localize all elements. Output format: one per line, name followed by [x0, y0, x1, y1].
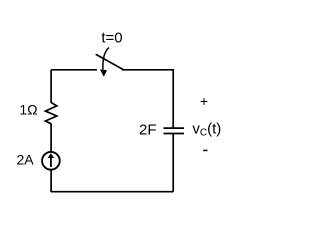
svg-text:1Ω: 1Ω [19, 102, 37, 118]
wire top-right segment [122, 69, 173, 71]
wire bottom [51, 191, 173, 193]
label - polarity [203, 150, 207, 152]
svg-text:2A: 2A [16, 152, 34, 168]
resistor R1 zigzag [45, 103, 56, 124]
svg-text:t=0: t=0 [101, 29, 122, 46]
current source arrowhead [48, 153, 55, 158]
switch closing arrow arc [103, 48, 109, 70]
wire left below current source [50, 170, 52, 192]
svg-text:+: + [200, 93, 208, 109]
current source arrow shaft [50, 157, 52, 167]
svg-text:2F: 2F [139, 122, 157, 139]
wire left between resistor and source [50, 124, 52, 152]
svg-text:vC(t): vC(t) [192, 121, 221, 139]
switch SW1 blade (open, t=0) [96, 54, 124, 70]
wire left upper (resistor to top corner) [50, 70, 52, 103]
wire right lower [172, 134, 174, 192]
capacitor C1 top plate [164, 127, 185, 129]
switch closing arrowhead [100, 69, 107, 77]
current source I1 circle [42, 152, 60, 170]
wire right upper (to capacitor) [172, 69, 174, 128]
capacitor C1 bottom plate [164, 133, 185, 135]
wire top-left segment [51, 69, 97, 71]
